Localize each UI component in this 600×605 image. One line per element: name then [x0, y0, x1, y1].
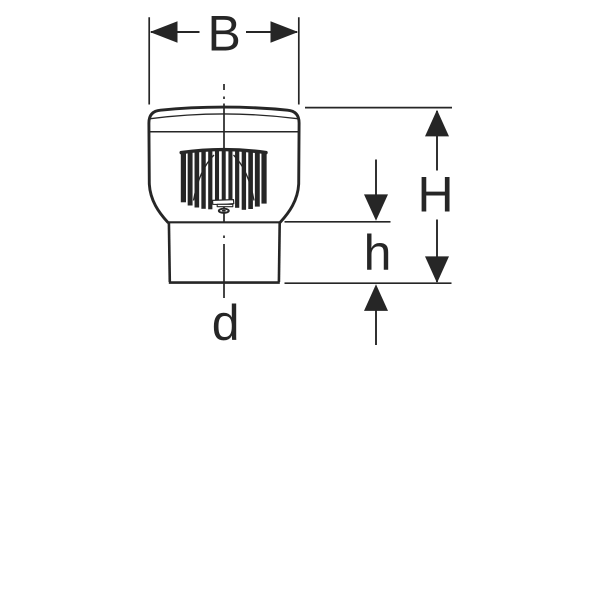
drain ellipse — [219, 209, 229, 213]
arrowhead H down — [425, 256, 449, 283]
extension line B right — [298, 17, 300, 104]
drain ellipse center dot — [222, 210, 226, 212]
arrowhead h down — [364, 194, 388, 220]
extension line B left — [148, 17, 150, 104]
body outline (cap and bowl) — [149, 107, 299, 222]
extension line top right (H top) — [305, 107, 452, 109]
dimension line B — [151, 31, 297, 33]
centerline (vertical dash-dot axis) — [223, 84, 225, 298]
extension line bottom right (H/h bottom) — [285, 282, 452, 284]
extension line middle right (h top) — [285, 221, 391, 223]
grille inner arc left — [194, 155, 215, 201]
cap lower line — [150, 131, 299, 133]
spigot bottom edge — [169, 281, 280, 284]
arrowhead B right — [271, 21, 299, 42]
cap seam line — [150, 114, 297, 119]
grille top rim — [181, 150, 266, 153]
h lower arrow (pointing up to bottom line) — [375, 310, 377, 345]
spigot right edge — [278, 222, 281, 282]
arrowhead B left — [150, 21, 178, 42]
arrowhead H up — [425, 110, 449, 137]
arrowhead h up — [364, 284, 388, 311]
grille slats — [181, 150, 267, 210]
grille bottom step band — [213, 200, 234, 205]
shoulder line — [168, 221, 281, 223]
spigot left edge — [168, 222, 172, 282]
svg-text:H: H — [417, 167, 453, 223]
svg-text:h: h — [364, 225, 392, 281]
dimension line H — [436, 111, 438, 282]
grille inner arc right — [234, 155, 255, 201]
h upper arrow (pointing down to middle line) — [375, 160, 377, 197]
svg-text:B: B — [208, 6, 241, 62]
grille bottom step lower lip — [217, 204, 233, 206]
svg-text:d: d — [212, 295, 240, 351]
